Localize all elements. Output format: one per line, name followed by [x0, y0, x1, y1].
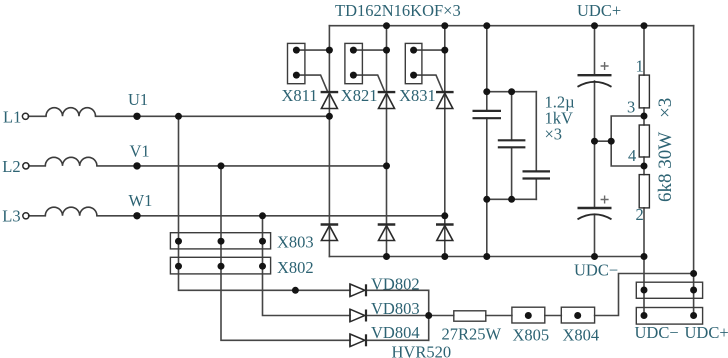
- pin X803 middle: [218, 238, 225, 245]
- wire X805 to X804: [545, 315, 562, 317]
- wire phase L3 from coil to SCR column 3: [97, 215, 445, 217]
- junction bottom rail resistor chain: [641, 253, 648, 260]
- connector X803 box: [170, 233, 270, 249]
- wire film cap C2 vertical: [511, 92, 513, 200]
- svg-text:X805: X805: [513, 326, 550, 345]
- svg-text:X804: X804: [563, 326, 600, 345]
- resistor R2 (pin3-pin4) box: [639, 125, 649, 157]
- junction top rail resistor chain: [641, 22, 648, 29]
- pin X805: [525, 312, 532, 319]
- wire X804 to UDC+ vertical: [595, 274, 694, 316]
- wire VD802 cathode to common bus: [366, 289, 429, 291]
- capacitor film C1 plates: [473, 111, 502, 118]
- pin UDC output lower box right: [690, 312, 697, 319]
- wire phase L2 from coil to SCR column 2: [97, 165, 387, 167]
- junction gate wire column 2: [383, 47, 390, 54]
- diode D1 (bottom arm, phase U): [321, 223, 339, 225]
- svg-text:U1: U1: [128, 90, 148, 109]
- connector UDC output box lower: [636, 308, 702, 325]
- node 4 resistor chain: [641, 163, 648, 170]
- wire phase L1 from terminal to coil: [28, 115, 46, 117]
- svg-text:6k8 30W ×3: 6k8 30W ×3: [655, 98, 676, 202]
- junction VD common bus output: [425, 312, 432, 319]
- connector X805 box: [512, 307, 545, 323]
- pin X802 left: [175, 263, 182, 270]
- svg-text:UDC−: UDC−: [574, 261, 618, 280]
- junction top rail film cap bank: [483, 22, 490, 29]
- wire phase L3 from terminal to coil: [29, 215, 46, 217]
- junction U1 line to X803 drop: [175, 113, 182, 120]
- wire U1 drop to X803/X802 and VD802 row: [179, 116, 351, 290]
- connector X811 box: [288, 43, 305, 83]
- wire VD804 cathode to common bus: [366, 339, 429, 341]
- inductor L2: [45, 157, 97, 166]
- wire 27R25W to X805: [486, 315, 512, 317]
- junction W1 line to X803 drop: [259, 212, 266, 219]
- terminal L1: [22, 113, 28, 119]
- pin UDC output upper box left: [641, 287, 648, 294]
- pin X802 middle: [218, 263, 225, 270]
- pin X804: [574, 312, 581, 319]
- svg-text:UDC+: UDC+: [577, 1, 621, 20]
- junction V1 line to X803 drop: [218, 162, 225, 169]
- diode D2 (bottom arm, phase V): [378, 223, 396, 225]
- wire cap midpoint to balance bracket: [595, 140, 612, 142]
- wire VD803 cathode to common bus: [366, 315, 429, 317]
- wire resistor chain column: [643, 26, 645, 315]
- wire W1 drop to X803/X802 and VD803 row: [263, 216, 351, 316]
- junction VD802 anode row: [292, 287, 299, 294]
- diode VD802 symbol: [349, 284, 351, 297]
- svg-text:X802: X802: [277, 258, 314, 277]
- connector X831 box: [405, 43, 422, 83]
- junction electrolytic midpoint: [591, 138, 598, 145]
- junction bottom rail column 3: [441, 253, 448, 260]
- node W1: [133, 212, 140, 219]
- svg-text:X821: X821: [341, 86, 378, 105]
- resistor 27R25W box: [454, 311, 486, 321]
- node V1: [133, 162, 140, 169]
- junction bottom rail electrolytic: [591, 253, 598, 260]
- connector X821 box: [345, 43, 363, 83]
- capacitor electrolytic bottom plates: [578, 207, 612, 209]
- wire X831 top pin to column 3: [414, 49, 445, 51]
- junction bracket midpoint: [608, 138, 615, 145]
- wire UDC- bottom rail: [329, 256, 644, 258]
- connector UDC output box upper: [636, 282, 702, 298]
- junction film bank bottom bus middle: [508, 196, 515, 203]
- svg-text:L1: L1: [3, 108, 21, 127]
- thyristor X831 SCR3 symbol: [436, 91, 454, 93]
- junction bottom rail column 2: [383, 253, 390, 260]
- wire X811 gate lead to SCR1: [296, 75, 327, 92]
- svg-text:VD804: VD804: [371, 323, 420, 342]
- wire phase L2 from terminal to coil: [29, 165, 46, 167]
- pin UDC output lower box left: [641, 312, 648, 319]
- junction top rail column 3: [441, 22, 448, 29]
- wire SCR column 2 vertical: [386, 26, 388, 257]
- svg-text:27R25W: 27R25W: [442, 325, 502, 344]
- wire film cap bank top bus: [487, 91, 537, 93]
- wire balance bracket: [611, 116, 644, 166]
- plus sign of top electrolytic cap: [601, 62, 609, 70]
- wire UDC+ top rail: [329, 25, 693, 27]
- svg-text:1: 1: [636, 57, 644, 76]
- connector X802 box: [170, 257, 270, 274]
- pin X821 upper: [350, 47, 357, 54]
- svg-text:4: 4: [628, 146, 636, 165]
- svg-text:2: 2: [636, 205, 644, 224]
- svg-text:TD162N16KOF×3: TD162N16KOF×3: [335, 1, 461, 20]
- junction gate wire column 1: [326, 47, 333, 54]
- pin X821 lower: [350, 72, 357, 79]
- pin X811 upper: [293, 47, 300, 54]
- svg-text:VD802: VD802: [371, 275, 420, 294]
- junction top rail column 2: [383, 22, 390, 29]
- wire film cap bank bottom bus: [487, 198, 537, 200]
- capacitor film C3 plates: [523, 171, 551, 178]
- wire film cap C3 vertical: [535, 92, 537, 200]
- junction film bank top bus left: [483, 88, 490, 95]
- wire electrolytic cap column: [594, 26, 596, 257]
- node U1: [133, 113, 140, 120]
- svg-text:X831: X831: [399, 86, 436, 105]
- terminal L3: [23, 213, 29, 219]
- junction U1 at SCR column 1: [326, 113, 333, 120]
- pin X811 lower: [293, 72, 300, 79]
- diode VD803 symbol: [349, 309, 351, 322]
- pin UDC output upper box right: [690, 287, 697, 294]
- junction film bank bottom bus left: [483, 196, 490, 203]
- svg-text:×3: ×3: [545, 125, 563, 144]
- junction V1 at SCR column 2: [383, 162, 390, 169]
- wire SCR column 3 vertical: [444, 26, 446, 257]
- terminal L2: [23, 163, 29, 169]
- inductor L3: [45, 207, 97, 216]
- wire VD bus to resistor 27R25W: [429, 315, 454, 317]
- capacitor electrolytic top plates: [578, 74, 612, 76]
- thyristor X811 SCR1 symbol: [321, 91, 339, 93]
- svg-text:L3: L3: [2, 207, 20, 226]
- svg-text:X803: X803: [277, 233, 314, 252]
- thyristor X821 SCR2 symbol: [378, 91, 396, 93]
- wire V1 drop to X803/X802 and VD804 row: [221, 166, 350, 340]
- wire X821 gate lead to SCR2: [353, 75, 384, 92]
- wire X831 gate lead to SCR3: [414, 75, 444, 92]
- svg-text:V1: V1: [130, 142, 150, 161]
- node 3 resistor chain: [641, 113, 648, 120]
- wire X811 top pin to column 1: [296, 49, 329, 51]
- junction bottom rail film bank: [483, 253, 490, 260]
- svg-text:L2: L2: [2, 157, 20, 176]
- wire UDC+ right vertical: [693, 26, 695, 315]
- junction gate wire column 3: [441, 47, 448, 54]
- pin X803 left: [175, 238, 182, 245]
- wire film cap C1 vertical: [486, 26, 488, 257]
- junction precharge wire to UDC+ vertical: [690, 270, 697, 277]
- wire X821 top pin to column 2: [353, 49, 386, 51]
- connector X804 box: [561, 307, 594, 323]
- pin X802 right: [259, 263, 266, 270]
- wire VD common bus vertical: [428, 290, 430, 340]
- capacitor film C2 plates: [498, 140, 526, 147]
- inductor L1: [46, 108, 96, 117]
- plus sign of bottom electrolytic cap: [601, 196, 609, 204]
- junction film bank top bus middle: [508, 88, 515, 95]
- resistor R1 (pin1-pin3) box: [639, 75, 649, 108]
- svg-text:UDC+: UDC+: [685, 323, 728, 342]
- junction top rail electrolytic: [591, 22, 598, 29]
- svg-text:UDC−: UDC−: [635, 323, 679, 342]
- svg-text:X811: X811: [282, 86, 318, 105]
- junction W1 at SCR column 3: [441, 212, 448, 219]
- wire phase L1 from coil to SCR column 1: [96, 115, 330, 117]
- pin X803 right: [259, 238, 266, 245]
- resistor R3 (pin4-pin2) box: [639, 175, 649, 208]
- pin X831 lower: [410, 72, 417, 79]
- svg-text:3: 3: [627, 98, 635, 117]
- svg-text:HVR520: HVR520: [392, 343, 452, 358]
- svg-text:VD803: VD803: [371, 299, 420, 318]
- wire SCR column 1 vertical: [328, 26, 330, 257]
- diode D3 (bottom arm, phase W): [436, 223, 454, 225]
- pin X831 upper: [410, 47, 417, 54]
- svg-text:W1: W1: [129, 191, 153, 210]
- diode VD804 symbol: [349, 334, 351, 347]
